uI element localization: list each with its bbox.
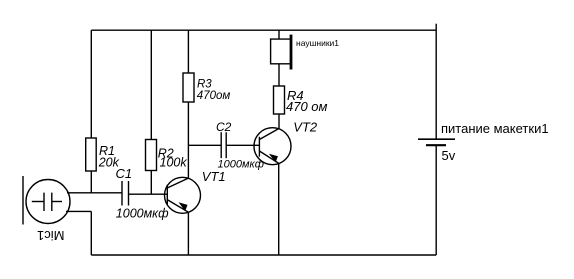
battery GB1 power wire top [435, 24, 437, 140]
wire mic bottom lead [66, 210, 91, 212]
wire R3 bottom to VT1 collector [187, 102, 189, 178]
svg-text:VT1: VT1 [202, 169, 226, 184]
wire headphones top lead [278, 30, 280, 39]
resistor R4 [274, 86, 285, 114]
wire R3 top lead [187, 30, 189, 73]
transistor VT2 [254, 128, 291, 165]
wire R2 bottom lead [150, 171, 152, 195]
wire R1 bottom lead [90, 171, 92, 193]
battery GB1 power wire bottom [435, 145, 437, 255]
resistor R1 [86, 138, 97, 171]
wire mic down to ground rail [90, 211, 92, 255]
wire branch to C2 [188, 144, 221, 146]
battery GB1 [418, 139, 455, 145]
resistor R2 [146, 140, 157, 171]
svg-text:1000мкф: 1000мкф [116, 206, 169, 220]
wire R4 to VT2 collector [278, 114, 280, 129]
wire bottom ground rail [91, 254, 436, 256]
capacitor C1 [122, 181, 129, 206]
svg-text:5v: 5v [442, 148, 456, 163]
wire C2 to VT2 base [226, 144, 259, 146]
svg-text:R3: R3 [197, 79, 212, 91]
wire top supply rail [91, 29, 436, 31]
capacitor C2 [221, 132, 226, 158]
microphone Mic1 [23, 176, 70, 225]
svg-text:наушники1: наушники1 [296, 38, 339, 48]
resistor R3 [183, 73, 194, 102]
transistor VT1 [165, 177, 201, 213]
svg-text:C1: C1 [116, 166, 133, 181]
wire left rail to R1 [90, 30, 92, 138]
headphones BF1 [271, 35, 291, 70]
svg-text:470ом: 470ом [197, 90, 231, 102]
wire mic to C1 [67, 192, 122, 194]
svg-text:Mic1: Mic1 [37, 228, 64, 243]
svg-text:питание макетки1: питание макетки1 [441, 121, 549, 136]
svg-text:C2: C2 [216, 120, 232, 134]
wire VT2 emitter down [278, 163, 280, 255]
wire headphones to R4 [278, 64, 280, 86]
wire VT1 base [129, 193, 168, 195]
wire R2 top lead [150, 30, 152, 139]
svg-text:100k: 100k [160, 156, 188, 170]
svg-text:470 ом: 470 ом [286, 99, 328, 114]
wire VT1 emitter down [187, 212, 189, 255]
svg-text:VT2: VT2 [293, 120, 318, 135]
